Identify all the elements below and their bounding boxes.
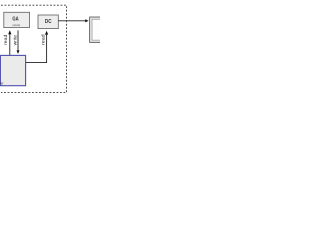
arrow read (up, left) [3,30,11,55]
box DC [38,15,58,29]
arrow write (down) [13,30,20,54]
dashed boundary [1,5,67,92]
blue box [0,55,26,85]
box GA [4,12,30,27]
svg-text:DC: DC [45,19,52,25]
elbow arrow read (blue box to DC) [26,31,48,63]
svg-text:read: read [3,34,8,45]
svg-text:(optional): (optional) [12,23,20,27]
svg-text:write: write [13,34,18,45]
right framed box [90,17,103,42]
svg-text:GA: GA [12,16,18,22]
arrow DC to right box [59,19,89,22]
svg-text:read: read [41,34,46,45]
